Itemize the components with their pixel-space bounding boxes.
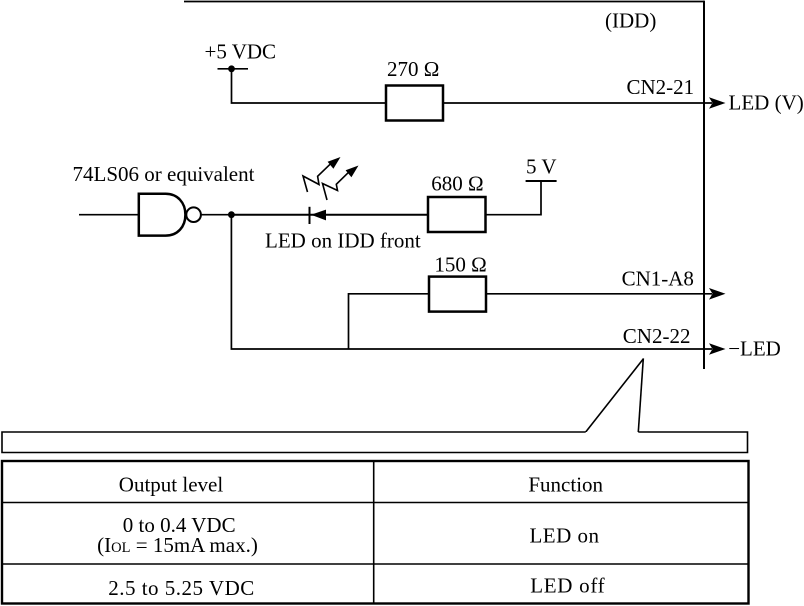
junction node dot at gate output xyxy=(228,211,235,218)
svg-text:150 Ω: 150 Ω xyxy=(434,253,486,277)
svg-text:270 Ω: 270 Ω xyxy=(387,57,439,81)
wire junction to R680 (diode sits on it) xyxy=(231,214,428,216)
5V supply bar xyxy=(526,180,557,182)
svg-text:680 Ω: 680 Ω xyxy=(431,172,483,196)
svg-text:CN1-A8: CN1-A8 xyxy=(622,267,694,291)
callout funnel right line xyxy=(638,359,643,433)
table column divider xyxy=(373,461,375,604)
wire gate output to junction xyxy=(201,214,232,216)
LED emission arrow 2 xyxy=(323,166,359,201)
svg-text:5 V: 5 V xyxy=(526,155,557,179)
wire R270 to CN2-21 arrow xyxy=(443,102,712,104)
svg-text:Output level: Output level xyxy=(119,473,224,497)
svg-text:(IDD): (IDD) xyxy=(605,9,656,33)
svg-text:LED on IDD front: LED on IDD front xyxy=(265,229,421,253)
table outer border xyxy=(2,461,749,604)
LED D1 triangle xyxy=(311,210,326,221)
IDD enclosure top edge xyxy=(184,1,704,3)
resistor 270 ohm xyxy=(386,86,443,121)
+5 VDC terminal tick xyxy=(218,68,249,70)
wire R150 to CN1-A8 arrow xyxy=(486,293,712,295)
table row divider 1 xyxy=(2,502,749,504)
svg-text:LED (V): LED (V) xyxy=(729,91,804,115)
arrowhead CN2-22 output xyxy=(709,343,726,355)
svg-text:LED on: LED on xyxy=(529,524,599,548)
inverter gate U1 (74LS06 open-collector buffer) xyxy=(139,194,186,236)
svg-text:2.5 to 5.25 VDC: 2.5 to 5.25 VDC xyxy=(108,576,255,600)
LED emission arrow 1 xyxy=(303,157,341,192)
svg-text:LED off: LED off xyxy=(530,574,605,598)
LED D1 cathode bar xyxy=(309,207,311,224)
svg-text:−LED: −LED xyxy=(728,337,781,361)
callout funnel left line xyxy=(586,359,644,433)
wire branch up-left of R150 xyxy=(349,294,430,349)
IDD enclosure right edge xyxy=(703,1,705,369)
svg-text:74LS06 or equivalent: 74LS06 or equivalent xyxy=(73,162,255,186)
resistor 680 ohm xyxy=(428,197,486,232)
table row divider 2 xyxy=(2,563,749,565)
svg-text:Function: Function xyxy=(528,473,603,497)
svg-text:CN2-21: CN2-21 xyxy=(627,75,695,99)
svg-text:+5 VDC: +5 VDC xyxy=(205,39,277,63)
+5 VDC node dot xyxy=(228,65,235,72)
wire +5VDC stem down then right to R 270 xyxy=(232,69,387,103)
gate output inversion bubble xyxy=(186,207,201,222)
arrowhead CN1-A8 output xyxy=(709,288,726,300)
wire R680 to 5V stem xyxy=(486,181,542,215)
callout bar xyxy=(2,432,748,453)
wire junction down to CN2-22 line xyxy=(231,215,712,349)
resistor 150 ohm xyxy=(429,277,486,312)
svg-text:CN2-22: CN2-22 xyxy=(623,324,691,348)
wire gate input xyxy=(79,214,139,216)
arrowhead CN2-21 output xyxy=(709,97,726,109)
